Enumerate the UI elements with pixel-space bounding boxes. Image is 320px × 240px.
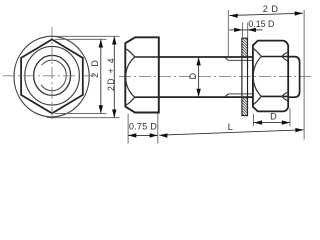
washer hatching bottom bbox=[245, 97, 248, 100]
front view: shank circle bbox=[34, 55, 71, 95]
svg-text:0.75 D: 0.75 D bbox=[129, 122, 157, 132]
side view: bolt axis centerline bbox=[119, 75, 313, 77]
dimension D (nut width) extension lines bbox=[252, 114, 254, 126]
nut chamfer arcs left bbox=[253, 48, 261, 105]
front view: washer circle bbox=[14, 36, 89, 117]
dimension 2D (thread length, top) bbox=[230, 13, 303, 15]
dimension line 2D+4 (front) bbox=[113, 36, 115, 117]
dimension D (shank diameter) bbox=[198, 57, 200, 97]
nut chamfer arcs right bbox=[282, 52, 288, 61]
side view: shank upper edge bbox=[159, 56, 253, 58]
side view: shank lower edge bbox=[159, 96, 253, 98]
svg-text:2 D: 2 D bbox=[90, 58, 100, 77]
side view: head facet line lower bbox=[135, 96, 159, 98]
dimension 0.15D line and arrows bbox=[229, 29, 242, 31]
dimension 2D+4 extension lines (front) bbox=[47, 35, 120, 37]
svg-text:D: D bbox=[188, 72, 198, 79]
dimension line 0.75D bbox=[128, 134, 158, 136]
side view: bolt head outline bbox=[125, 37, 159, 112]
dimension 0.75D extension lines bbox=[127, 114, 129, 144]
dimension D (nut width) line bbox=[253, 122, 290, 124]
nut facet line upper bbox=[261, 56, 288, 58]
nut outline bbox=[253, 41, 288, 112]
nut facet line lower bbox=[261, 95, 288, 97]
front view: chamfer circle bbox=[25, 46, 80, 105]
thread start extension line bbox=[227, 10, 229, 57]
side view: head chamfer arcs bbox=[125, 49, 134, 106]
side view: head facet line upper bbox=[135, 56, 159, 58]
svg-text:2D + 4: 2D + 4 bbox=[106, 57, 116, 91]
front view: thread core 3/4 circle bbox=[41, 60, 66, 91]
right extension line (bolt end) bbox=[303, 10, 305, 140]
front view: vertical centerline bbox=[51, 27, 53, 122]
front view: horizontal centerline bbox=[3, 75, 96, 77]
washer hatching top bbox=[245, 38, 248, 41]
bolt protruding tip bbox=[288, 57, 299, 98]
dimension 2D extension lines (front) bbox=[55, 38, 107, 40]
dimension line 2D (front) bbox=[100, 39, 102, 113]
svg-text:2 D: 2 D bbox=[263, 4, 279, 14]
svg-text:D: D bbox=[270, 111, 277, 121]
front view: hexagon of bolt head bbox=[21, 39, 83, 113]
dimension L line bbox=[159, 130, 303, 135]
dimension 0.15D extension lines bbox=[241, 23, 243, 38]
svg-text:L: L bbox=[228, 122, 233, 133]
side view: thread core lines bbox=[228, 59, 253, 61]
svg-text:0.15 D: 0.15 D bbox=[248, 19, 274, 29]
washer outline (section) bbox=[242, 38, 248, 116]
side view: thread chamfer diagonals bbox=[225, 57, 229, 60]
